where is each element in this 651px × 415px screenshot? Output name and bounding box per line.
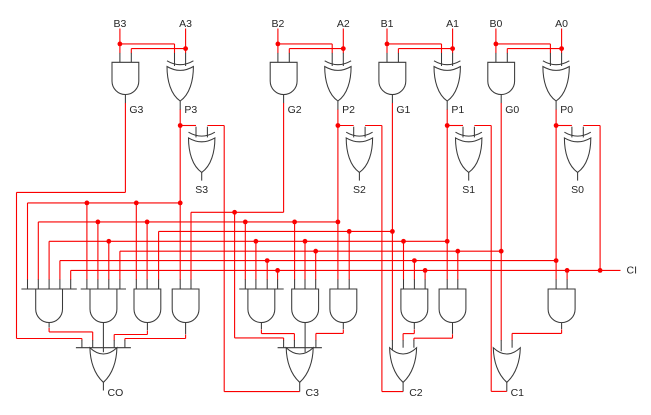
- pin C3 and1 input P1: [255, 279, 257, 289]
- and-gate C3 and2 (P2 P1 G0): [292, 289, 319, 323]
- wire P1 drop to C2 and1: [403, 241, 405, 279]
- or-gate CO: [76, 347, 131, 349]
- pin P2 output: [337, 101, 339, 110]
- svg-text:S1: S1: [462, 184, 475, 196]
- wire C2 and2 output to or-gate: [452, 323, 454, 334]
- wire CI up to S0: [599, 126, 601, 271]
- pin C3 and1 input P2: [244, 279, 246, 289]
- pin CO and4 input G2: [190, 279, 192, 289]
- wire A0 to XOR right: [561, 49, 563, 54]
- and-gate C1 and (P0 CI): [548, 289, 575, 323]
- wire G0 output down: [500, 103, 502, 340]
- node A1 junction: [450, 46, 455, 51]
- pin CO and2 input P1: [108, 279, 110, 289]
- and-gate G0: [488, 62, 515, 94]
- pin AND G3 inputs: [119, 53, 121, 62]
- wire carry to S3 right input: [207, 125, 224, 127]
- pin XOR P1 inputs: [441, 53, 443, 66]
- wire CO and1 output to or-gate: [48, 323, 50, 328]
- wire net G3 horizontal: [17, 191, 126, 193]
- node G1 tap C3 and3: [347, 229, 352, 234]
- wire B1 to AND left: [386, 44, 388, 53]
- svg-text:A1: A1: [446, 18, 459, 30]
- wire G2 branch down: [234, 212, 236, 338]
- wire A1 to AND right: [398, 48, 452, 50]
- pin C2 and1 input P1: [403, 279, 405, 289]
- wire P3 drop to CO and1: [27, 203, 29, 280]
- svg-text:G0: G0: [505, 104, 519, 116]
- wire P1 junction down: [446, 126, 448, 242]
- pin CO or-gate input G3: [81, 340, 83, 348]
- pin CO and4 output to or-gate stub: [124, 340, 126, 348]
- pin C1 and input CI: [566, 279, 568, 289]
- node A0 junction: [559, 46, 564, 51]
- pin C1 and output to or-gate stub: [511, 340, 513, 348]
- svg-text:B3: B3: [113, 18, 126, 30]
- wire C1 feedback to S1: [491, 390, 507, 392]
- pin CO and2 input G0: [119, 279, 121, 289]
- and-gate CO and4 (P3 G2): [172, 289, 199, 323]
- pin CO and3 input P2: [146, 279, 148, 289]
- or-gate C2: [390, 348, 417, 383]
- wire B0 to AND left: [495, 44, 497, 53]
- svg-text:C1: C1: [511, 387, 525, 399]
- wire G2 output down: [283, 103, 285, 212]
- node B2 junction: [276, 42, 281, 47]
- wire C2 feedback to S2: [382, 391, 403, 393]
- wire net G3 left vertical: [16, 192, 18, 338]
- wire A2 stub: [342, 29, 344, 49]
- pin G0 output: [500, 95, 502, 104]
- wire C3 and2 output direct: [304, 323, 306, 353]
- wire P3 to S3 left input: [180, 125, 196, 127]
- wire P1 to S1 left input: [447, 125, 463, 127]
- wire G3 output down: [124, 103, 126, 192]
- node A2 junction: [341, 46, 346, 51]
- svg-text:C2: C2: [409, 387, 423, 399]
- node G0 junction at net: [499, 249, 504, 254]
- pin CO and3 input P3: [135, 279, 137, 289]
- wire C3 feedback to S3: [224, 391, 300, 393]
- wire P2 drop to CO and2: [97, 222, 99, 280]
- node CI tap C1 and: [565, 268, 570, 273]
- wire net P0 horizontal: [60, 260, 556, 262]
- node G0 tap C2 and2: [455, 249, 460, 254]
- node P2 tap CO and3: [145, 220, 150, 225]
- xor-gate P1: [434, 61, 460, 65]
- wire P2 drop to CO and1: [37, 222, 39, 280]
- svg-text:B2: B2: [271, 18, 284, 30]
- and-gate G2: [270, 62, 297, 94]
- and-gate G1: [379, 62, 406, 94]
- wire net P3 horizontal: [28, 202, 181, 204]
- and-gate C3 and1 (P2 P1 P0 CI): [239, 288, 284, 290]
- xor-gate P0: [543, 61, 569, 65]
- wire A0 stub: [561, 29, 563, 49]
- wire B3 to AND left: [119, 44, 121, 53]
- pin G2 output: [283, 95, 285, 104]
- wire P2 to S2 left input: [338, 125, 354, 127]
- pin CO and4 input P3: [179, 279, 181, 289]
- pin G1 output: [391, 95, 393, 104]
- wire P2 drop to C3 and2: [294, 222, 296, 280]
- node P2 junction at net: [336, 220, 341, 225]
- svg-text:G3: G3: [129, 104, 143, 116]
- and-gate C2 and2 (P1 G0): [439, 289, 466, 323]
- pin C2 and2 input G0: [457, 279, 459, 289]
- pin S2 inputs: [353, 127, 355, 138]
- wire P0 drop to CO and1: [59, 261, 61, 280]
- wire P3 junction down: [179, 126, 181, 203]
- pin CO and3 output to or-gate stub: [113, 340, 115, 348]
- wire CI drop to CO and1: [70, 270, 72, 279]
- wire P2 drop to CO and3: [146, 222, 148, 280]
- node P3 junction: [178, 123, 183, 128]
- and-gate C3 and3 (P2 G1): [330, 289, 357, 323]
- node P1 tap CO and2: [106, 239, 111, 244]
- node P2 junction: [336, 123, 341, 128]
- pin C3 and1 input CI: [277, 279, 279, 289]
- node P1 junction: [445, 123, 450, 128]
- pin C3 output: [299, 382, 301, 391]
- wire carry to S1 right input: [474, 125, 491, 127]
- wire P1 drop to C3 and1: [255, 241, 257, 279]
- svg-text:A0: A0: [555, 18, 568, 30]
- pin C3 and2 input G0: [315, 279, 317, 289]
- node CI tap C2 and1: [423, 268, 428, 273]
- wire CI drop to C1 and: [566, 270, 568, 279]
- pin P3 output: [179, 101, 181, 110]
- wire B1 to XOR left: [387, 43, 442, 45]
- wire net G3 to CO or-gate: [17, 338, 82, 340]
- svg-text:S2: S2: [353, 184, 366, 196]
- wire A0 to AND right: [507, 48, 561, 50]
- pin XOR P0 inputs: [549, 53, 551, 66]
- wire P3 drop to CO and2: [86, 203, 88, 280]
- wire G0 drop to C2 and2: [457, 251, 459, 280]
- wire CO and2 output direct: [102, 323, 104, 353]
- wire P1 down to junction: [446, 110, 448, 126]
- wire G2 drop to CO and4: [190, 212, 192, 279]
- svg-text:CO: CO: [108, 387, 124, 399]
- svg-text:G2: G2: [288, 104, 302, 116]
- pin C2 output: [402, 382, 404, 391]
- wire G2 to C3 or-gate: [235, 337, 284, 339]
- wire net CI horizontal: [71, 269, 621, 271]
- pin C2 and1 output to or-gate stub: [402, 340, 404, 348]
- wire C1 and output to or-gate: [561, 323, 563, 330]
- pin CO and2 input P3: [86, 279, 88, 289]
- wire net G2 horizontal: [191, 211, 284, 213]
- pin S1 inputs: [462, 127, 464, 138]
- pin C1 or-gate input G0: [500, 340, 502, 351]
- svg-text:G1: G1: [396, 104, 410, 116]
- pin CO and2 input P2: [97, 279, 99, 289]
- node P1 tap C3 and2: [303, 239, 308, 244]
- wire A2 to AND right: [289, 48, 343, 50]
- pin G3 output: [124, 95, 126, 104]
- wire P2 drop to C3 and1: [244, 222, 246, 280]
- wire P2 drop to C3 and3: [337, 222, 339, 280]
- or-gate C3: [278, 347, 322, 349]
- wire net P2 horizontal: [38, 221, 338, 223]
- wire P0 junction down: [555, 126, 557, 261]
- wire G0 drop to CO and2: [119, 251, 121, 280]
- svg-text:A2: A2: [337, 18, 350, 30]
- pin C3 and1 input P0: [266, 279, 268, 289]
- wire carry to S2 right input: [365, 125, 382, 127]
- wire P0 drop to C2 and1: [413, 261, 415, 280]
- node CI tap S0: [598, 268, 603, 273]
- wire P1 drop to C3 and2: [304, 241, 306, 279]
- wire CI drop to C3 and1: [277, 270, 279, 279]
- node P2 tap CO and2: [96, 220, 101, 225]
- pin CO and1 input P1: [48, 279, 50, 289]
- pin S3 inputs: [195, 127, 197, 138]
- pin AND G1 inputs: [386, 53, 388, 62]
- wire P3 down to junction: [179, 110, 181, 126]
- node B0 junction: [494, 42, 499, 47]
- wire B0 stub: [495, 29, 497, 44]
- node P0 tap C2 and1: [412, 258, 417, 263]
- wire G1 output down: [391, 103, 393, 340]
- svg-text:P1: P1: [451, 104, 464, 116]
- node P2 tap C3 and1: [243, 220, 248, 225]
- node P1 junction at net: [445, 239, 450, 244]
- pin C1 output: [506, 382, 508, 391]
- pin CO and1 input P2: [37, 279, 39, 289]
- pin C3 and2 input P2: [294, 279, 296, 289]
- wire A1 to XOR right: [452, 49, 454, 54]
- and-gate CO and1 (P3 P2 P1 P0 CI): [21, 288, 76, 290]
- wire G1 drop to C3 and3: [348, 231, 350, 279]
- pin CO output: [102, 382, 104, 390]
- pin S1 output: [468, 172, 470, 180]
- pin CO and1 input CI: [70, 279, 72, 289]
- node P3 junction at net: [178, 201, 183, 206]
- wire P0 drop to C3 and1: [266, 261, 268, 280]
- and-gate CO and2 (P3 P2 P1 G0): [81, 288, 126, 290]
- pin P1 output: [446, 101, 448, 110]
- svg-text:S0: S0: [571, 184, 584, 196]
- svg-text:A3: A3: [179, 18, 192, 30]
- and-gate CO and3 (P3 P2 G1): [134, 289, 161, 323]
- pin S2 output: [358, 172, 360, 180]
- node G2 tap C3 or: [232, 210, 237, 215]
- wire CI drop to C2 and1: [424, 270, 426, 279]
- wire B1 stub: [386, 29, 388, 44]
- wire C3 and3 output to or-gate: [342, 323, 344, 330]
- or-gate C1: [493, 348, 520, 383]
- pin C2 and2 output to or-gate stub: [413, 340, 415, 348]
- pin C3 or-gate input G2: [283, 340, 285, 348]
- pin S0 inputs: [571, 127, 573, 138]
- pin C1 and input P0: [555, 279, 557, 289]
- wire A1 stub: [452, 29, 454, 49]
- svg-text:P0: P0: [560, 104, 573, 116]
- node P0 junction: [554, 123, 559, 128]
- pin C3 and1 output to or-gate stub: [293, 340, 295, 348]
- wire net G1 horizontal: [159, 230, 393, 232]
- wire P1 drop to CO and1: [48, 241, 50, 279]
- pin C2 and1 input CI: [424, 279, 426, 289]
- wire A3 stub: [185, 29, 187, 49]
- and-gate G3: [112, 62, 139, 94]
- pin S3 output: [201, 172, 203, 180]
- wire net G0 horizontal: [120, 250, 501, 252]
- pin C2 and2 input P1: [446, 279, 448, 289]
- pin C3 and3 input P2: [337, 279, 339, 289]
- wire A3 to XOR right: [185, 49, 187, 54]
- wire P1 drop to C2 and2: [446, 241, 448, 279]
- svg-text:P3: P3: [184, 104, 197, 116]
- wire A2 to XOR right: [342, 49, 344, 54]
- pin C2 and1 input P0: [413, 279, 415, 289]
- node B1 junction: [385, 42, 390, 47]
- pin C2 or-gate input G1: [391, 340, 393, 351]
- xor-gate P2: [325, 61, 351, 65]
- pin CO and1 input P0: [59, 279, 61, 289]
- wire P0 down to junction: [555, 110, 557, 126]
- xor-gate S0: [564, 132, 590, 136]
- wire CO and3 output to or-gate: [146, 323, 148, 331]
- wire B3 stub: [119, 29, 121, 44]
- wire B2 to XOR left: [278, 43, 332, 45]
- wire P1 drop to CO and2: [108, 241, 110, 279]
- wire P2 junction down: [337, 126, 339, 222]
- node P3 tap CO and2: [85, 201, 90, 206]
- wire P0 to S0 left input: [556, 125, 572, 127]
- pin CO and1 output to or-gate stub: [92, 340, 94, 348]
- svg-text:B0: B0: [489, 18, 502, 30]
- pin C3 and2 input P1: [304, 279, 306, 289]
- node A3 junction: [183, 46, 188, 51]
- pin AND G2 inputs: [277, 53, 279, 62]
- wire CO and4 output to or-gate: [185, 323, 187, 335]
- pin P0 output: [555, 101, 557, 110]
- wire G1 drop to CO and3: [158, 231, 160, 279]
- pin XOR P3 inputs: [174, 53, 176, 66]
- pin CO and3 input G1: [158, 279, 160, 289]
- wire P0 drop to C1 and: [555, 261, 557, 280]
- xor-gate P3: [167, 61, 193, 65]
- wire C3 and1 output to or-gate: [260, 323, 262, 330]
- node P1 tap C3 and1: [254, 239, 259, 244]
- xor-gate S2: [346, 132, 372, 136]
- node P3 tap CO and3: [134, 201, 139, 206]
- svg-text:C3: C3: [306, 387, 320, 399]
- and-gate C2 and1 (P1 P0 CI): [401, 289, 428, 323]
- svg-text:CI: CI: [627, 265, 638, 277]
- pin C3 and3 output to or-gate stub: [315, 340, 317, 348]
- node G1 junction at net: [390, 229, 395, 234]
- wire carry to S0 right input: [583, 125, 600, 127]
- wire B2 stub: [277, 29, 279, 44]
- pin S0 output: [577, 172, 579, 180]
- node P0 tap C3 and1: [265, 258, 270, 263]
- wire B2 to AND left: [277, 44, 279, 53]
- node P0 junction at net: [554, 258, 559, 263]
- wire A3 to AND right: [131, 48, 185, 50]
- svg-text:P2: P2: [342, 104, 355, 116]
- wire P3 drop to CO and4: [179, 203, 181, 280]
- xor-gate S3: [189, 132, 215, 136]
- node CI tap C3 and1: [275, 268, 280, 273]
- wire B3 to XOR left: [120, 43, 175, 45]
- pin C3 and3 input G1: [348, 279, 350, 289]
- node G0 tap C3 and2: [313, 249, 318, 254]
- pin AND G0 inputs: [495, 53, 497, 62]
- wire B0 to XOR left: [496, 43, 551, 45]
- node P2 tap C3 and2: [292, 220, 297, 225]
- wire G0 drop to C3 and2: [315, 251, 317, 280]
- wire net P1 horizontal: [49, 240, 447, 242]
- wire P3 drop to CO and3: [135, 203, 137, 280]
- node B3 junction: [118, 42, 123, 47]
- node P1 tap C2 and1: [401, 239, 406, 244]
- wire P2 down to junction: [337, 110, 339, 126]
- svg-text:S3: S3: [195, 184, 208, 196]
- svg-text:B1: B1: [381, 18, 394, 30]
- wire C2 and1 output to or-gate: [413, 323, 415, 330]
- xor-gate S1: [456, 132, 482, 136]
- pin XOR P2 inputs: [331, 53, 333, 66]
- pin CO and1 input P3: [27, 279, 29, 289]
